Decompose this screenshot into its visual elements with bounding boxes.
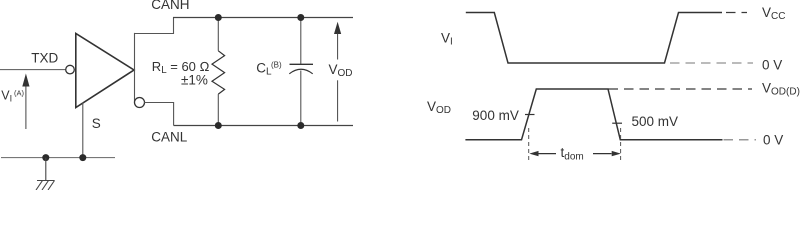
svg-text:500 mV: 500 mV — [632, 114, 679, 129]
label 500 mV — [632, 114, 679, 129]
node junction CL bottom — [297, 122, 304, 129]
label S — [92, 116, 101, 131]
svg-text:900 mV: 900 mV — [472, 108, 519, 123]
wire bottom ground rail — [1, 157, 115, 159]
label CL(B) — [256, 61, 282, 78]
label VCC — [762, 5, 785, 22]
node 900mV tick — [525, 114, 535, 116]
node junction ground stub — [42, 154, 49, 161]
node 500mV tick — [612, 122, 622, 124]
label VI(A) — [1, 89, 24, 104]
wire VI waveform trace — [466, 13, 722, 64]
svg-text:TXD: TXD — [31, 51, 58, 66]
wire TXD input — [0, 69, 66, 71]
wire CANH branch — [135, 18, 174, 34]
node junction RL top — [215, 14, 222, 21]
wire VCC dashed level — [726, 12, 747, 14]
wire dashed cursor left — [528, 128, 530, 163]
svg-text:±1%: ±1% — [181, 73, 208, 88]
svg-text:VOD: VOD — [329, 62, 353, 79]
label 0V lower — [763, 133, 783, 148]
svg-text:CANH: CANH — [151, 0, 189, 12]
ground — [36, 158, 55, 190]
wire VOD(D) dashed level — [609, 88, 753, 90]
wire CANL branch — [144, 103, 173, 126]
node junction RL bottom — [215, 122, 222, 129]
label VOD waveform — [427, 99, 451, 116]
node tdom arrows — [529, 151, 621, 156]
label CANL — [151, 129, 188, 144]
label 0V upper — [762, 57, 782, 72]
svg-text:CL: CL — [256, 61, 272, 78]
svg-text:VOD: VOD — [427, 99, 451, 116]
label VOD left — [329, 62, 353, 79]
label CANH — [151, 0, 189, 12]
svg-text:0 V: 0 V — [763, 133, 783, 148]
node VOD measurement arrow — [334, 22, 341, 122]
label tdom — [561, 145, 584, 163]
svg-text:(A): (A) — [14, 89, 25, 98]
resistor RL — [212, 18, 225, 126]
svg-text:tdom: tdom — [561, 145, 584, 163]
capacitor CL — [289, 18, 313, 126]
label RL value — [152, 59, 210, 88]
node junction CL top — [297, 14, 304, 21]
op-amp U1 driver — [66, 34, 134, 108]
label TXD — [31, 51, 58, 66]
node VI measurement arrow — [22, 74, 29, 130]
svg-text:VI: VI — [1, 89, 12, 104]
label 900 mV — [472, 108, 519, 123]
svg-text:VCC: VCC — [762, 5, 785, 22]
svg-text:0 V: 0 V — [762, 57, 782, 72]
node CANL bubble — [135, 98, 145, 108]
label VI waveform — [441, 31, 453, 48]
svg-text:VOD(D): VOD(D) — [762, 81, 800, 98]
svg-text:(B): (B) — [271, 61, 282, 70]
svg-text:S: S — [92, 116, 101, 131]
wire CANH rail — [173, 17, 353, 19]
wire VOD waveform trace — [465, 89, 722, 140]
wire dashed cursor right — [620, 128, 622, 163]
wire S pin — [82, 103, 84, 158]
node junction S/ground rail — [79, 154, 86, 161]
wire CANL rail — [174, 125, 353, 127]
svg-text:CANL: CANL — [151, 129, 188, 144]
wire 0V dashed level lower — [724, 139, 757, 141]
wire 0V dashed level upper — [670, 62, 753, 64]
svg-text:VI: VI — [441, 31, 453, 48]
label VOD(D) — [762, 81, 800, 98]
wire output bar — [134, 33, 136, 103]
